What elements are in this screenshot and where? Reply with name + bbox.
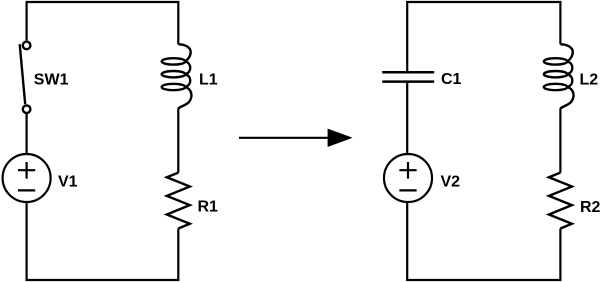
wire: switch to V1 [26,114,28,155]
switch SW1 [20,42,31,113]
wire: L2 to R2 [559,108,561,172]
capacitor C1 [382,72,434,81]
voltage source V1 [3,154,51,202]
svg-text:V2: V2 [441,174,461,191]
inductor L1 [162,44,192,108]
svg-text:R1: R1 [198,198,219,215]
resistor R1 [167,173,190,229]
wire: C1 to V2 [406,83,408,154]
svg-text:R2: R2 [580,199,600,216]
svg-text:V1: V1 [58,173,78,190]
wire: right circuit bottom loop [407,202,560,280]
wire: right circuit top loop [407,2,560,71]
svg-text:SW1: SW1 [34,71,69,88]
inductor L2 [544,44,574,108]
arrow [239,129,353,147]
svg-text:L2: L2 [580,72,599,89]
wire: L1 to R1 [177,108,179,172]
wire: left circuit top loop [27,2,179,44]
resistor R2 [549,173,572,229]
svg-text:L1: L1 [199,72,218,89]
wire: left circuit bottom loop [27,202,179,280]
voltage source V2 [384,154,432,202]
svg-text:C1: C1 [441,71,462,88]
